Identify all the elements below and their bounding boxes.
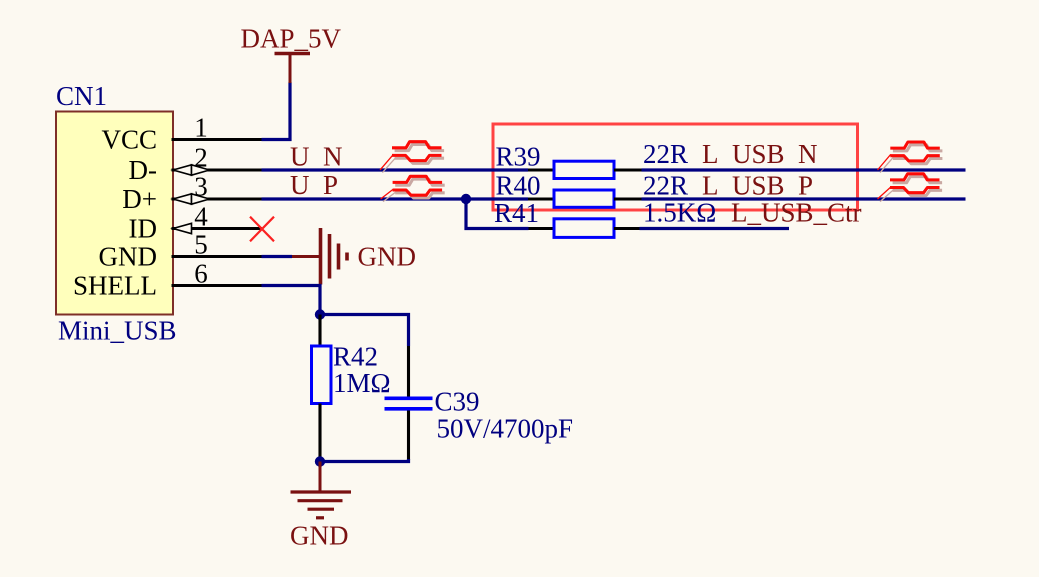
svg-text:Mini_USB: Mini_USB [58, 316, 177, 346]
svg-text:DAP_5V: DAP_5V [241, 24, 342, 54]
pin 2 D- [129, 143, 262, 186]
capacitor C39 bottom lead [407, 411, 410, 461]
svg-text:R39: R39 [496, 142, 541, 172]
svg-text:1MΩ: 1MΩ [333, 368, 391, 398]
resistor R42 body [312, 346, 332, 404]
svg-text:R42: R42 [333, 342, 378, 372]
svg-text:CN1: CN1 [56, 81, 107, 111]
resistor R40 body [554, 190, 614, 207]
wire pin1 to DAP_5V [262, 82, 291, 140]
svg-text:GND: GND [290, 521, 349, 551]
no-ERC marker on pin 4 [250, 217, 274, 242]
svg-text:22R: 22R [643, 139, 688, 169]
svg-text:VCC: VCC [101, 125, 157, 155]
resistor R41 body [554, 219, 614, 238]
capacitor C39 top lead [407, 346, 410, 397]
svg-text:U N: U N [290, 142, 343, 172]
selection rectangle (blanket directive) [493, 124, 858, 210]
svg-text:GND: GND [358, 242, 417, 272]
capacitor C39 plates [385, 398, 433, 409]
svg-text:L USB N: L USB N [702, 139, 818, 169]
wire D+ net right segment [642, 197, 966, 200]
svg-text:GND: GND [99, 242, 158, 272]
svg-text:ID: ID [129, 214, 158, 244]
wire junction to C39 branch [320, 315, 409, 347]
wire D- net right segment [642, 168, 966, 171]
wire pin6 SHELL down to junction [262, 286, 321, 315]
resistor R39 right pin [614, 168, 642, 171]
differential pair directive S3 (right, D- net) [878, 142, 943, 173]
svg-text:6: 6 [194, 259, 208, 289]
wire R41 right segment [640, 227, 790, 230]
differential pair directive S4 (right, D+ net) [878, 174, 943, 202]
resistor R40 right pin [614, 197, 642, 200]
resistor R39 left pin [528, 168, 554, 171]
wire junction down to R41 row [466, 199, 529, 229]
pin 3 D+ [122, 172, 261, 215]
differential pair directive S2 (left, D+ net) [381, 176, 445, 201]
wire D+ net left segment [262, 197, 529, 200]
wire C39 bottom to junction [320, 459, 409, 462]
svg-text:L_USB_Ctr: L_USB_Ctr [731, 198, 862, 228]
svg-text:SHELL: SHELL [73, 271, 157, 301]
pin 1 VCC [101, 113, 261, 155]
ground symbol GND (earth) [290, 462, 351, 551]
svg-text:4: 4 [194, 202, 208, 232]
junction node on D+ net [461, 194, 471, 204]
wire pin5 to GND power port [262, 255, 293, 258]
svg-text:D-: D- [129, 155, 158, 185]
svg-text:5: 5 [194, 230, 208, 260]
svg-text:C39: C39 [435, 387, 480, 417]
resistor R41 left pin [529, 227, 555, 230]
power port GND (signal ground) [292, 228, 416, 285]
svg-text:2: 2 [194, 143, 208, 173]
power port DAP_5V [241, 24, 342, 84]
svg-text:R40: R40 [496, 170, 541, 200]
differential pair directive S1 (left, D- net) [380, 142, 444, 173]
svg-text:D+: D+ [122, 184, 157, 214]
svg-text:50V/4700pF: 50V/4700pF [437, 414, 574, 444]
svg-text:L USB P: L USB P [702, 170, 813, 200]
pin 4 ID [129, 202, 263, 244]
svg-text:3: 3 [194, 172, 208, 202]
resistor R39 body [554, 161, 614, 178]
resistor R42 top lead [318, 315, 321, 347]
svg-text:1: 1 [194, 113, 208, 143]
wire D- net left segment [262, 168, 529, 171]
svg-text:U P: U P [290, 170, 338, 200]
resistor R42 bottom lead [318, 404, 321, 462]
connector CN1 body [56, 112, 173, 315]
svg-text:1.5KΩ: 1.5KΩ [643, 198, 716, 228]
svg-text:22R: 22R [643, 170, 688, 200]
junction node top of R42 [315, 309, 325, 319]
junction node bottom of R42 [315, 456, 325, 466]
pin 6 SHELL [73, 259, 262, 301]
svg-text:R41: R41 [494, 198, 539, 228]
resistor R41 right pin [614, 227, 640, 230]
resistor R40 left pin [528, 197, 554, 200]
pin 5 GND [99, 230, 262, 272]
